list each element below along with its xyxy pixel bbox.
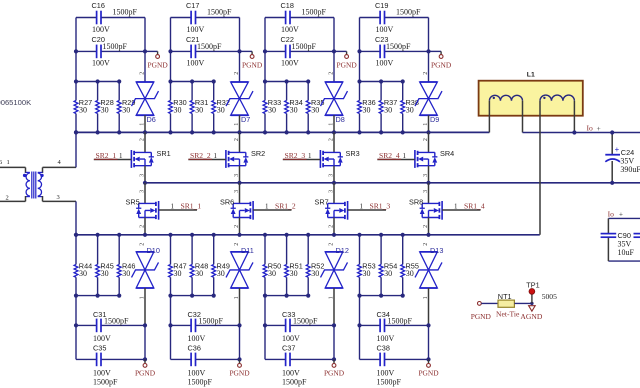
- resistor R52: [306, 235, 324, 296]
- junction: R47 bottom: [168, 294, 172, 298]
- junction: R54 bottom: [379, 294, 383, 298]
- junction: R52 bottom: [306, 294, 310, 298]
- svg-text:PGND: PGND: [418, 369, 439, 378]
- svg-text:30: 30: [195, 269, 203, 278]
- svg-text:2: 2: [328, 72, 334, 75]
- svg-text:30: 30: [311, 105, 319, 114]
- wire: PGND to NT1: [481, 302, 498, 304]
- transistor SR2 (MOSFET): [226, 132, 265, 182]
- capacitor C38: [377, 343, 402, 386]
- junction: C38 right: [426, 357, 430, 361]
- junction: R29 top: [117, 79, 121, 83]
- junction: R51 bottom: [285, 294, 289, 298]
- diode D6 (bidirectional TVS): [132, 72, 159, 133]
- resistor R35: [306, 82, 324, 133]
- svg-text:+: +: [597, 124, 601, 133]
- junction: C33 right: [332, 323, 336, 327]
- junction: SR6 drain / bottom bus: [237, 233, 241, 237]
- svg-text:2: 2: [139, 72, 145, 75]
- svg-text:1: 1: [265, 202, 269, 210]
- svg-text:SR2_2: SR2_2: [190, 151, 211, 160]
- svg-text:1: 1: [403, 152, 407, 160]
- svg-text:PGND: PGND: [229, 369, 250, 378]
- resistor R54: [379, 235, 397, 296]
- junction: R48 bottom: [190, 294, 194, 298]
- junction: SR4 source / middle bus: [426, 181, 430, 185]
- capacitor C33: [282, 310, 318, 343]
- svg-text:30: 30: [217, 269, 225, 278]
- junction: C34 left: [357, 323, 361, 327]
- junction: SR5 drain / bottom bus: [143, 233, 147, 237]
- junction: SR8 drain / bottom bus: [426, 233, 430, 237]
- junction: R55 top: [401, 233, 405, 237]
- svg-text:PGND: PGND: [337, 60, 358, 69]
- svg-text:SR7: SR7: [315, 198, 329, 207]
- capacitor C31: [93, 310, 129, 343]
- junction: R33 bottom: [263, 130, 267, 134]
- svg-text:TP1: TP1: [526, 280, 539, 289]
- svg-text:30: 30: [290, 105, 298, 114]
- svg-text:+: +: [619, 211, 623, 219]
- junction: C32 right: [237, 323, 241, 327]
- wire: L1 winding A right to output: [523, 101, 640, 133]
- svg-text:C37: C37: [282, 343, 295, 352]
- svg-text:1: 1: [119, 152, 123, 160]
- capacitor C22: [281, 35, 317, 67]
- junction: R46 bottom: [117, 294, 121, 298]
- wire: gate net SR1_2: [253, 209, 291, 211]
- svg-text:30: 30: [174, 105, 182, 114]
- junction: D9 / top bus: [426, 130, 430, 134]
- svg-text:30: 30: [195, 105, 203, 114]
- junction: R30 top: [168, 79, 172, 83]
- resistor R53: [358, 235, 376, 296]
- svg-text:30: 30: [384, 269, 392, 278]
- capacitor C24 (polarized): [605, 133, 640, 183]
- junction: R28 bottom: [96, 130, 100, 134]
- junction: R44 top: [74, 233, 78, 237]
- resistor R51: [285, 235, 303, 296]
- capacitor C21: [186, 35, 222, 67]
- svg-text:1: 1: [214, 152, 218, 160]
- transformer pin 4 label: [58, 159, 62, 166]
- junction: R32 top: [212, 79, 216, 83]
- svg-text:1500pF: 1500pF: [293, 317, 318, 326]
- junction: R48 top: [190, 233, 194, 237]
- svg-text:30: 30: [384, 105, 392, 114]
- svg-text:PGND: PGND: [148, 60, 169, 69]
- svg-text:2: 2: [139, 243, 145, 246]
- wire: transformer pin 4 to top bus: [43, 132, 77, 167]
- svg-text:1: 1: [360, 202, 364, 210]
- junction: R27 bottom: [74, 130, 78, 134]
- svg-text:1500pF: 1500pF: [388, 317, 413, 326]
- svg-text:1: 1: [234, 123, 240, 126]
- svg-text:2: 2: [234, 243, 240, 246]
- svg-text:1500pF: 1500pF: [103, 42, 128, 51]
- svg-text:100V: 100V: [376, 58, 394, 67]
- resistor R49: [212, 235, 230, 296]
- junction: C31 left: [74, 323, 78, 327]
- wire: bottom snubber frame column 4: [360, 296, 429, 360]
- svg-text:SR2_3: SR2_3: [285, 151, 306, 160]
- capacitor C37: [282, 343, 307, 386]
- wire: top resistor bus column 1: [76, 81, 119, 83]
- diode D7 (bidirectional TVS): [226, 72, 253, 133]
- wire: bottom resistor bus column 3: [265, 295, 308, 297]
- junction: C33 left: [263, 323, 267, 327]
- svg-text:100V: 100V: [377, 334, 395, 343]
- junction: R49 top: [212, 233, 216, 237]
- power PGND pin (net tie): [471, 302, 492, 322]
- junction: pin3 / bottom bus: [74, 233, 78, 237]
- transistor SR5 (MOSFET): [126, 183, 159, 235]
- junction: C22 right: [332, 49, 336, 53]
- junction: R30 bottom: [168, 130, 172, 134]
- svg-text:1: 1: [423, 296, 429, 299]
- svg-text:SR2_1: SR2_1: [96, 151, 117, 160]
- svg-text:C36: C36: [188, 343, 201, 352]
- svg-text:5005: 5005: [542, 292, 557, 301]
- svg-text:D13: D13: [430, 246, 443, 255]
- wire: bottom snubber frame column 1: [76, 296, 145, 360]
- junction: C20 right: [143, 49, 147, 53]
- wire: top snubber frame column 4: [360, 18, 429, 83]
- node SR1_3 net label: [360, 201, 391, 210]
- junction: R36 top: [357, 79, 361, 83]
- wire: gate net SR1_1: [159, 209, 197, 211]
- svg-text:2: 2: [234, 138, 240, 141]
- svg-text:L1: L1: [527, 72, 535, 79]
- junction: R34 bottom: [285, 130, 289, 134]
- svg-text:1500pF: 1500pF: [302, 8, 327, 17]
- svg-text:1500pF: 1500pF: [197, 42, 222, 51]
- svg-text:1500pF: 1500pF: [113, 8, 138, 17]
- power PGND pin (top column 4): [429, 51, 452, 69]
- transformer pin 2 label: [6, 195, 9, 202]
- svg-text:100V: 100V: [187, 58, 205, 67]
- svg-text:30: 30: [79, 105, 87, 114]
- junction: R35 top: [306, 79, 310, 83]
- wire: bottom snubber frame column 3: [265, 296, 334, 360]
- junction: R33 top: [263, 79, 267, 83]
- junction: pin4 / top bus: [74, 130, 78, 134]
- junction: R38 top: [401, 79, 405, 83]
- resistor R28: [96, 82, 114, 133]
- diode D12 (bidirectional TVS): [321, 243, 349, 326]
- svg-text:C16: C16: [92, 1, 105, 10]
- power PGND pin (top column 2): [240, 51, 263, 69]
- svg-text:3: 3: [140, 174, 146, 177]
- wire: bottom resistor bus column 4: [360, 295, 403, 297]
- svg-text:100V: 100V: [282, 334, 300, 343]
- svg-text:2: 2: [423, 138, 429, 141]
- resistor R44: [74, 235, 92, 296]
- junction: R34 top: [285, 79, 289, 83]
- junction: C21 left: [168, 49, 172, 53]
- svg-text:D6: D6: [147, 115, 156, 124]
- junction: R45 top: [96, 233, 100, 237]
- resistor R36: [358, 82, 376, 133]
- junction: R46 top: [117, 233, 121, 237]
- junction: SR1 source / middle bus: [143, 181, 147, 185]
- svg-text:SR2: SR2: [251, 149, 265, 158]
- wire: L1 winding B right to output: [573, 101, 575, 133]
- node SR2_1 net label: [96, 151, 124, 160]
- svg-text:Io: Io: [608, 209, 615, 218]
- svg-text:1500pF: 1500pF: [292, 42, 317, 51]
- svg-text:2: 2: [329, 138, 335, 141]
- junction: R27 top: [74, 79, 78, 83]
- svg-text:100V: 100V: [92, 58, 110, 67]
- net-tie NT1: [496, 292, 520, 318]
- svg-text:100V: 100V: [282, 369, 300, 378]
- svg-text:SR8: SR8: [409, 198, 423, 207]
- junction: C24 top / output: [610, 130, 614, 134]
- transformer part number label: [0, 98, 31, 107]
- svg-text:2: 2: [140, 138, 146, 141]
- resistor R37: [379, 82, 397, 133]
- svg-text:SR1_3: SR1_3: [370, 201, 391, 210]
- transistor SR1 (MOSFET): [131, 132, 170, 182]
- resistor R33: [263, 82, 281, 133]
- node SR2_2 net label: [190, 151, 218, 160]
- svg-text:1500pF: 1500pF: [377, 377, 402, 386]
- junction: R36 bottom: [357, 130, 361, 134]
- svg-text:1: 1: [171, 202, 175, 210]
- transistor SR6 (MOSFET): [220, 183, 253, 235]
- svg-text:D11: D11: [241, 246, 254, 255]
- power PGND pin (bottom column 3): [324, 359, 345, 377]
- wire: transformer pin 3 to bottom bus: [43, 201, 77, 234]
- svg-text:1500pF: 1500pF: [282, 377, 307, 386]
- diode D10 (bidirectional TVS): [132, 243, 160, 326]
- junction: R55 bottom: [401, 294, 405, 298]
- wire: gate net SR2_1: [94, 158, 132, 160]
- junction: C24 bottom / middle bus: [610, 181, 614, 185]
- svg-text:30: 30: [79, 269, 87, 278]
- svg-text:1: 1: [308, 152, 312, 160]
- wire: gate net SR1_4: [442, 209, 480, 211]
- svg-text:C17: C17: [186, 1, 199, 10]
- wire: bottom resistor bus column 2: [171, 295, 214, 297]
- wire: NT1 to AGND: [514, 302, 532, 304]
- svg-text:AGND: AGND: [520, 312, 542, 321]
- svg-text:30: 30: [290, 269, 298, 278]
- junction: R31 top: [190, 79, 194, 83]
- svg-text:SR1_2: SR1_2: [275, 201, 296, 210]
- svg-text:1500pF: 1500pF: [396, 8, 421, 17]
- wire: aux output bottom rail: [608, 260, 640, 262]
- transistor SR4 (MOSFET): [415, 132, 454, 182]
- node SR1_1 net label: [171, 201, 202, 210]
- junction: R28 top: [96, 79, 100, 83]
- junction: C37 right: [332, 357, 336, 361]
- resistor R45: [96, 235, 114, 296]
- svg-text:SR2_4: SR2_4: [379, 151, 400, 160]
- junction: winding B right / output: [572, 130, 576, 134]
- capacitor C19: [375, 1, 421, 34]
- svg-text:2: 2: [423, 243, 429, 246]
- svg-text:1: 1: [328, 296, 334, 299]
- junction: C34 right: [426, 323, 430, 327]
- svg-text:1: 1: [139, 296, 145, 299]
- svg-text:PGND: PGND: [324, 369, 345, 378]
- svg-text:1500pF: 1500pF: [386, 42, 411, 51]
- resistor R47: [169, 235, 187, 296]
- transformer pin 3 label: [57, 194, 60, 201]
- inductor L1 (coupled, yellow body): [479, 81, 583, 116]
- power PGND pin (top column 1): [145, 51, 168, 69]
- svg-text:SR3: SR3: [346, 149, 360, 158]
- svg-text:1500pF: 1500pF: [188, 377, 213, 386]
- svg-text:30: 30: [122, 105, 130, 114]
- svg-text:D8: D8: [336, 115, 345, 124]
- capacitor C35: [93, 343, 118, 386]
- svg-text:100V: 100V: [281, 58, 299, 67]
- diode D13 (bidirectional TVS): [415, 243, 443, 326]
- svg-text:SR1: SR1: [157, 149, 171, 158]
- svg-text:1: 1: [139, 123, 145, 126]
- svg-text:Io: Io: [587, 123, 594, 132]
- resistor R46: [117, 235, 135, 296]
- svg-text:3: 3: [57, 194, 60, 201]
- svg-text:3: 3: [423, 174, 429, 177]
- svg-text:10uF: 10uF: [618, 248, 635, 257]
- junction: R35 bottom: [306, 130, 310, 134]
- wire: bottom resistor bus column 1: [76, 295, 119, 297]
- transformer pin 6 1 label: [0, 159, 10, 166]
- svg-text:1500pF: 1500pF: [104, 317, 129, 326]
- junction: C31 right: [143, 323, 147, 327]
- power PGND pin (bottom column 4): [418, 359, 439, 377]
- power PGND pin (bottom column 1): [135, 359, 156, 377]
- wire: top snubber frame column 2: [171, 18, 240, 83]
- junction: R53 top: [357, 233, 361, 237]
- svg-text:30: 30: [122, 269, 130, 278]
- svg-text:1: 1: [454, 202, 458, 210]
- wire: gate net SR1_3: [348, 209, 386, 211]
- junction: C23 right: [426, 49, 430, 53]
- svg-text:100V: 100V: [376, 25, 394, 34]
- resistor R55: [401, 235, 419, 296]
- svg-text:D10: D10: [147, 246, 160, 255]
- svg-text:3: 3: [423, 190, 429, 193]
- junction: SR7 drain / bottom bus: [332, 233, 336, 237]
- wire: top resistor bus column 4: [360, 81, 403, 83]
- svg-text:30: 30: [363, 269, 371, 278]
- junction: C35 right: [143, 357, 147, 361]
- svg-text:100V: 100V: [187, 25, 205, 34]
- svg-text:PGND: PGND: [135, 369, 156, 378]
- svg-text:1: 1: [423, 123, 429, 126]
- resistor R50: [263, 235, 281, 296]
- svg-text:100V: 100V: [93, 334, 111, 343]
- capacitor C90: [601, 218, 635, 261]
- junction: R45 bottom: [96, 294, 100, 298]
- wire: gate net SR2_2: [188, 158, 226, 160]
- svg-text:PGND: PGND: [471, 312, 492, 321]
- svg-text:NT1: NT1: [498, 292, 512, 301]
- junction: R38 bottom: [401, 130, 405, 134]
- diode D9 (bidirectional TVS): [415, 72, 442, 133]
- wire: gate net SR2_3: [283, 158, 321, 160]
- svg-text:30: 30: [311, 269, 319, 278]
- resistor R31: [190, 82, 208, 133]
- junction: R37 bottom: [379, 130, 383, 134]
- svg-text:2: 2: [423, 72, 429, 75]
- svg-text:1500pF: 1500pF: [93, 377, 118, 386]
- wire: L1 winding A left to top bus: [488, 101, 490, 133]
- svg-text:390uF: 390uF: [620, 165, 640, 174]
- resistor R32: [212, 82, 230, 133]
- svg-text:1500pF: 1500pF: [199, 317, 224, 326]
- svg-text:100V: 100V: [92, 25, 110, 34]
- wire: bottom snubber frame column 2: [171, 296, 240, 360]
- svg-text:2: 2: [140, 225, 146, 228]
- node L1 label: [527, 72, 535, 79]
- junction: C20 left: [74, 49, 78, 53]
- svg-text:0065100K: 0065100K: [0, 98, 31, 107]
- svg-text:SR6: SR6: [220, 198, 234, 207]
- node SR2_4 net label: [379, 151, 407, 160]
- wire: transformer pin 6/1 lead: [0, 166, 26, 168]
- svg-text:2: 2: [328, 243, 334, 246]
- wire: top resistor bus column 2: [171, 81, 214, 83]
- diode D8 (bidirectional TVS): [321, 72, 348, 133]
- transformer T1: [23, 167, 44, 201]
- diode D11 (bidirectional TVS): [226, 243, 254, 326]
- junction: R31 bottom: [190, 130, 194, 134]
- power PGND pin (bottom column 2): [229, 359, 250, 377]
- svg-text:2: 2: [234, 225, 240, 228]
- junction: R50 top: [263, 233, 267, 237]
- svg-text:30: 30: [268, 269, 276, 278]
- junction: AGND node: [530, 302, 533, 305]
- node SR1_4 net label: [454, 201, 485, 210]
- wire: transformer pin 2 lead: [0, 200, 26, 202]
- svg-text:3: 3: [329, 190, 335, 193]
- svg-text:1: 1: [234, 296, 240, 299]
- svg-text:100V: 100V: [188, 369, 206, 378]
- junction: R47 top: [168, 233, 172, 237]
- junction: R29 bottom: [117, 130, 121, 134]
- transistor SR7 (MOSFET): [315, 183, 348, 235]
- svg-text:2: 2: [6, 195, 9, 202]
- junction: R52 top: [306, 233, 310, 237]
- svg-text:30: 30: [268, 105, 276, 114]
- junction: D6 / top bus: [143, 130, 147, 134]
- junction: R49 bottom: [212, 294, 216, 298]
- junction: C36 right: [237, 357, 241, 361]
- capacitor C23: [375, 35, 411, 67]
- power PGND pin (top column 3): [334, 51, 357, 69]
- svg-text:2: 2: [329, 225, 335, 228]
- ground AGND: [520, 306, 542, 322]
- resistor R48: [190, 235, 208, 296]
- svg-text:C38: C38: [377, 343, 390, 352]
- svg-text:SR1_1: SR1_1: [181, 201, 202, 210]
- svg-text:2: 2: [423, 225, 429, 228]
- transistor SR3 (MOSFET): [320, 132, 359, 182]
- wire: top bus (switch node A): [76, 131, 489, 133]
- resistor R38: [401, 82, 419, 133]
- svg-text:1: 1: [7, 159, 10, 166]
- junction: C21 right: [237, 49, 241, 53]
- wire: bottom bus (switch node B): [76, 234, 540, 236]
- svg-text:30: 30: [174, 269, 182, 278]
- wire: top snubber frame column 1: [76, 18, 145, 83]
